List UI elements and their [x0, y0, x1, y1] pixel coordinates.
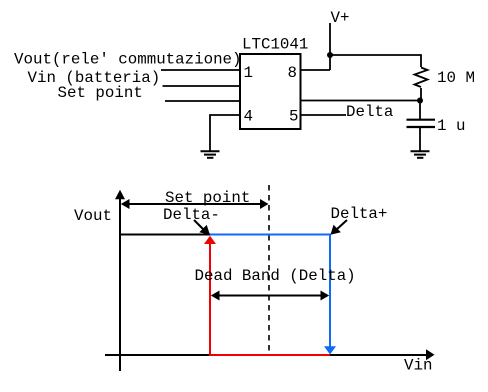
svg-text:LTC1041: LTC1041 [242, 36, 308, 54]
svg-text:1: 1 [244, 64, 253, 82]
svg-text:Set point: Set point [58, 84, 143, 102]
svg-text:Delta+: Delta+ [331, 205, 388, 223]
svg-text:4: 4 [244, 108, 253, 126]
svg-text:Vout: Vout [74, 207, 112, 225]
svg-text:Delta-: Delta- [163, 206, 220, 224]
svg-text:Vout(rele' commutazione): Vout(rele' commutazione) [14, 51, 242, 69]
svg-text:V+: V+ [331, 9, 350, 27]
svg-text:1 u: 1 u [437, 117, 465, 135]
svg-text:Delta: Delta [346, 103, 393, 121]
svg-text:5: 5 [289, 108, 298, 126]
svg-text:10 M: 10 M [437, 69, 475, 87]
svg-text:8: 8 [288, 64, 297, 82]
svg-text:Vin: Vin [404, 357, 432, 375]
svg-text:Set point: Set point [165, 189, 250, 207]
svg-text:Dead Band (Delta): Dead Band (Delta) [195, 267, 356, 285]
